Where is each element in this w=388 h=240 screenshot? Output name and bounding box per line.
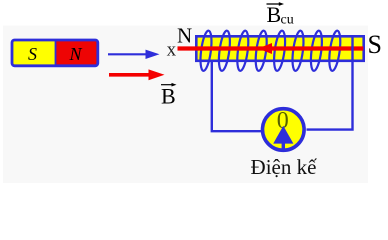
svg-text:S: S	[28, 44, 37, 64]
svg-text:B: B	[267, 2, 282, 27]
blue velocity arrow	[108, 50, 160, 59]
svg-text:S: S	[368, 30, 382, 59]
wire right	[307, 37, 353, 130]
label vector B	[161, 83, 177, 109]
svg-text:x: x	[167, 40, 177, 61]
svg-text:cu: cu	[281, 13, 294, 28]
red induction line with left arrowhead	[178, 43, 364, 54]
coil windings	[199, 30, 343, 71]
galvanometer G	[263, 108, 305, 150]
red field arrow B	[109, 69, 165, 80]
svg-text:B: B	[161, 84, 176, 109]
svg-text:Điện kế: Điện kế	[251, 155, 318, 179]
coil core bar	[196, 36, 363, 61]
background panel	[3, 26, 368, 184]
svg-text:N: N	[68, 44, 82, 64]
galvanometer needle	[282, 140, 285, 149]
wire left	[212, 60, 263, 131]
magnet body (S yellow / N red)	[12, 40, 98, 66]
label vector Bcu	[267, 2, 294, 28]
svg-text:N: N	[177, 24, 192, 48]
